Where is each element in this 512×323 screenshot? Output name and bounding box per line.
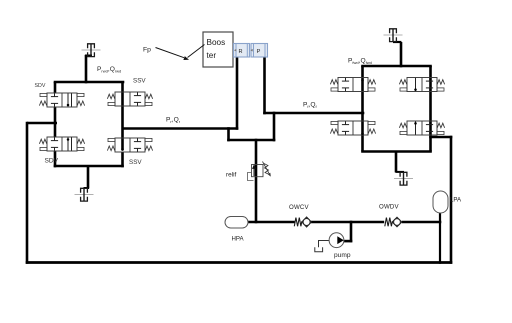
svg-text:SDV: SDV xyxy=(45,158,59,165)
wire: accumulator/pump bus segment 2 xyxy=(311,221,384,224)
wire: booster P port line xyxy=(263,57,266,114)
wire: rear group bottom bus xyxy=(54,165,124,168)
svg-text:Fp: Fp xyxy=(143,47,151,54)
port connector marks xyxy=(234,49,236,52)
svg-text:SDV: SDV xyxy=(35,83,46,89)
wire: booster R port line xyxy=(236,57,239,130)
svg-text:LPA: LPA xyxy=(450,197,462,204)
relief valve xyxy=(252,162,270,177)
wire: drop to bottom-left reservoir xyxy=(87,166,90,188)
wire: front group right bus xyxy=(429,66,432,152)
check valve OWCV xyxy=(294,217,311,227)
wire: front group right branch xyxy=(429,136,452,139)
svg-text:HPA: HPA xyxy=(232,236,245,243)
wire: front group left bus xyxy=(361,66,364,152)
wire: rear outer return line (left) xyxy=(27,122,57,125)
wire: drop to bottom-right reservoir xyxy=(395,152,398,173)
reservoir symbol T1 (rear top) xyxy=(82,44,101,57)
valve SDV rear bottom-left xyxy=(39,137,84,151)
booster port box R xyxy=(234,44,250,58)
svg-text:P: P xyxy=(257,49,261,55)
label Fp and actuation arrow xyxy=(143,47,184,58)
wire: rear group top bus xyxy=(54,81,125,84)
relief valve adjust arrowhead xyxy=(268,173,271,177)
valve SSV front top-right xyxy=(399,78,444,92)
svg-text:OWDV: OWDV xyxy=(379,204,399,211)
arrowhead of Fp arrow xyxy=(183,56,189,60)
wire: front group bottom bus xyxy=(361,150,432,153)
reservoir symbol T2 (rear bottom) xyxy=(75,188,94,201)
wire: pump pressure branch xyxy=(350,221,353,243)
lever line to booster xyxy=(188,45,205,58)
valve SDV front top-left xyxy=(330,78,375,92)
wire: node Pf Qf line (front supply) xyxy=(263,112,364,115)
svg-text:Pf,Qf: Pf,Qf xyxy=(303,102,318,110)
valve SDV front bottom-left xyxy=(330,121,375,135)
wire: relief branch down to accumulator bus xyxy=(255,139,258,224)
svg-text:Boos: Boos xyxy=(207,38,226,47)
wire: node Pr Qr line (rear supply) xyxy=(123,127,239,130)
svg-text:R: R xyxy=(238,49,242,55)
wire: front group return to bottom bus (right vertical) xyxy=(450,136,453,264)
booster unit xyxy=(203,32,233,67)
booster port box P xyxy=(251,44,268,58)
svg-text:pump: pump xyxy=(334,252,351,259)
svg-text:SSV: SSV xyxy=(133,78,146,85)
wire: rear reservoir drop (top-left) xyxy=(85,55,88,83)
wire: jog connecting R node to relief branch xyxy=(227,127,230,141)
pump xyxy=(315,233,344,252)
svg-text:SSV: SSV xyxy=(129,159,142,166)
valve SSV rear bottom-right xyxy=(107,138,152,152)
wire: rear group left bus (to SDV valves) xyxy=(54,82,57,93)
valve SSV rear top-right xyxy=(107,92,152,106)
svg-text:relif: relif xyxy=(226,172,237,179)
check valve OWDV xyxy=(385,217,402,227)
valve SSV front bottom-right xyxy=(399,121,444,135)
accumulator LPA xyxy=(433,191,448,213)
svg-text:ter: ter xyxy=(207,51,217,60)
reservoir symbol T3 (front top) xyxy=(384,29,403,42)
svg-text:OWCV: OWCV xyxy=(289,204,309,211)
reservoir symbol T4 (front bottom) xyxy=(394,172,413,185)
wire: LPA drop line xyxy=(439,212,441,263)
svg-text:Pr,Qr: Pr,Qr xyxy=(166,117,181,125)
wire: front group top bus xyxy=(361,65,432,68)
wire: accumulator/pump bus segment 3 xyxy=(402,221,442,224)
wire: front reservoir drop (top-right) xyxy=(393,41,401,43)
wire: bottom return bus xyxy=(26,261,453,264)
wire: accumulator/pump bus segment 1 xyxy=(247,221,295,224)
valve SDV rear top-left xyxy=(39,93,84,107)
wire: rear group right bus (through SSV valves) xyxy=(121,82,124,150)
relief valve pilot line xyxy=(248,173,254,181)
accumulator HPA xyxy=(225,217,248,229)
